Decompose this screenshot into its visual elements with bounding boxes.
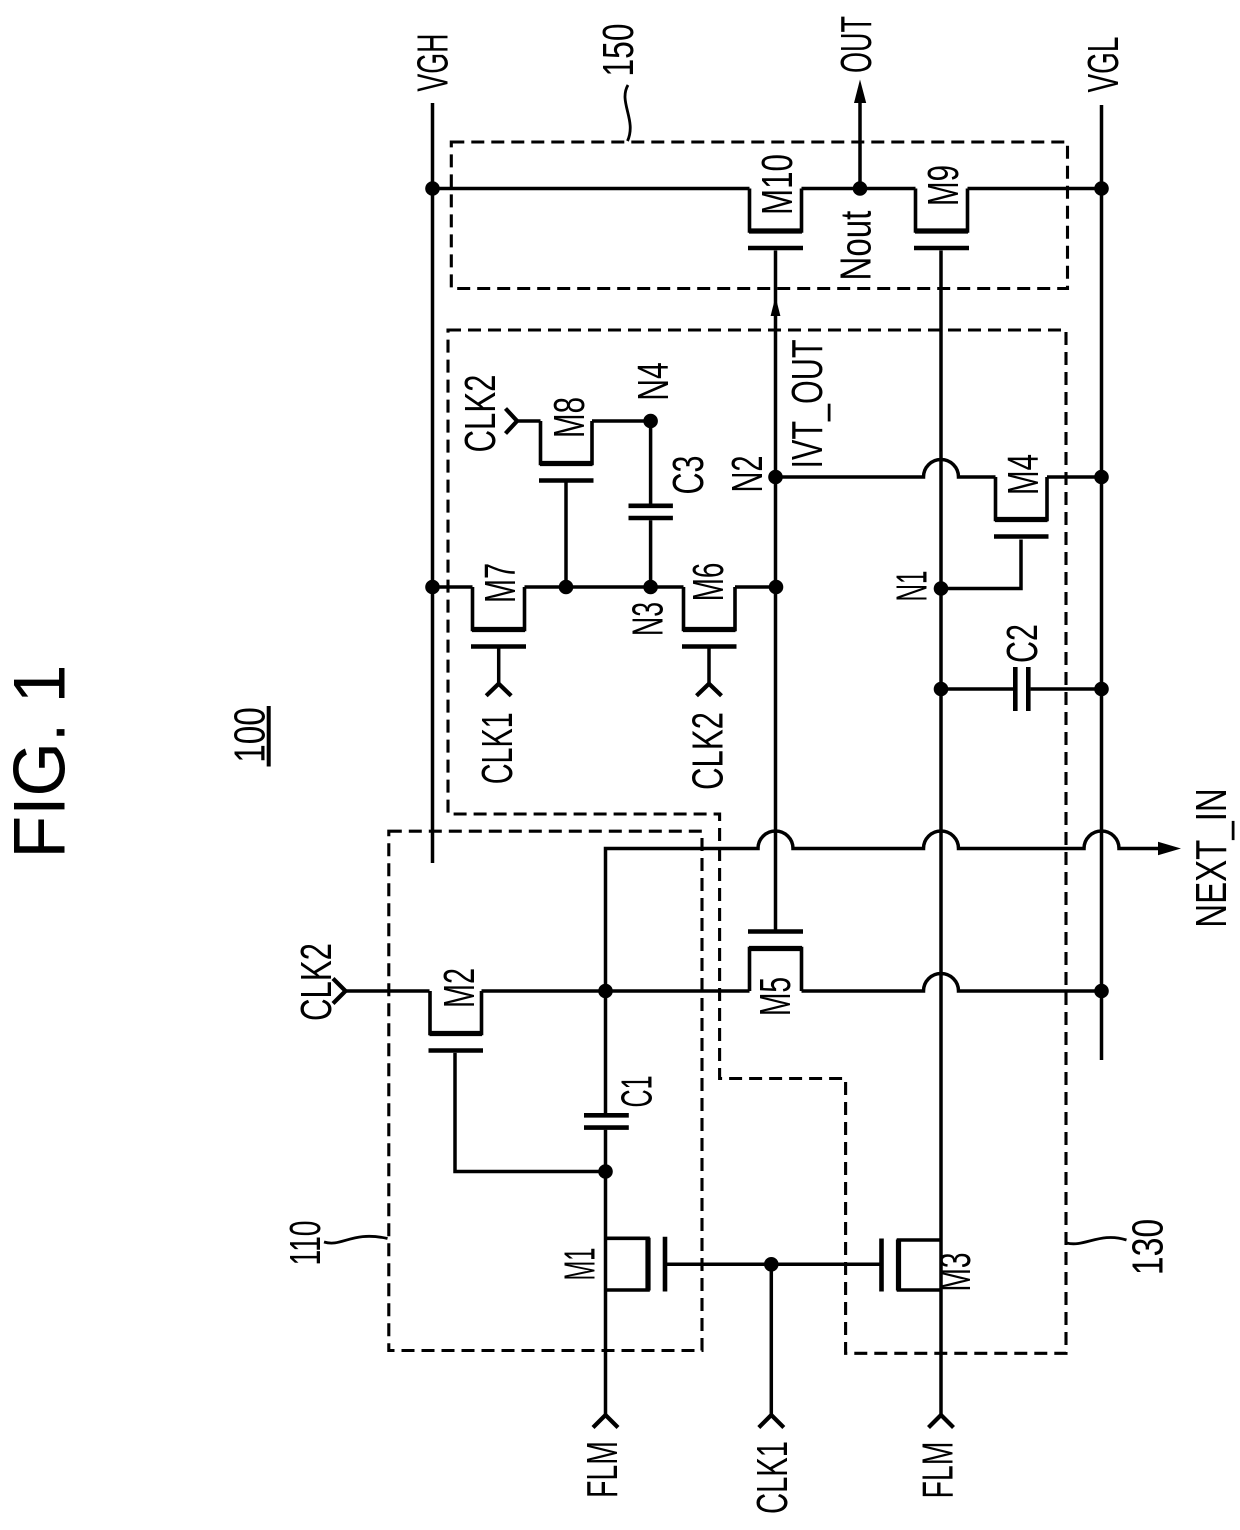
svg-text:M7: M7 bbox=[476, 563, 525, 603]
svg-text:CLK2: CLK2 bbox=[456, 375, 505, 453]
transistor M7 bbox=[473, 587, 525, 630]
svg-text:M2: M2 bbox=[435, 968, 484, 1008]
wire M8 gate lead bbox=[564, 481, 568, 588]
capacitor C1 bbox=[604, 991, 608, 1415]
svg-text:OUT: OUT bbox=[832, 16, 881, 73]
wire IVT_OUT (M10 gate to M5 gate) bbox=[774, 251, 778, 932]
arrowhead IVT_OUT (pointing up) bbox=[771, 297, 781, 317]
capacitor C3 bbox=[649, 421, 653, 587]
transistor M2 bbox=[430, 991, 482, 1034]
junction bottom row x VGL bbox=[1094, 984, 1109, 999]
svg-text:VGH: VGH bbox=[409, 34, 458, 92]
wire N2 row with hop bbox=[776, 460, 1102, 478]
wire M4 gate lead bbox=[948, 540, 1021, 589]
terminal CLK1 at M7 gate bbox=[497, 648, 501, 684]
junction C2 row x N1 line bbox=[934, 682, 949, 697]
terminal CLK2 at M2 source bbox=[333, 979, 346, 1004]
junction VGH x output row bbox=[425, 181, 440, 196]
svg-text:M4: M4 bbox=[999, 454, 1048, 495]
wire C2 row bbox=[941, 687, 1102, 691]
svg-text:C1: C1 bbox=[613, 1076, 662, 1108]
wire OUT lead bbox=[858, 103, 862, 189]
svg-text:FLM: FLM bbox=[914, 1442, 963, 1499]
wire output row bbox=[433, 187, 1102, 191]
dashed box 150 (output buffer) bbox=[451, 142, 1067, 289]
svg-text:M9: M9 bbox=[919, 165, 968, 206]
capacitor C2 bbox=[1013, 667, 1018, 711]
transistor M3 bbox=[899, 1240, 942, 1290]
svg-text:N1: N1 bbox=[888, 571, 937, 602]
junction output row x VGL bbox=[1094, 181, 1109, 196]
wire VGH rail bbox=[431, 103, 435, 863]
svg-text:M3: M3 bbox=[931, 1253, 980, 1292]
svg-text:Nout: Nout bbox=[832, 211, 881, 281]
terminal CLK2 at M6 gate bbox=[707, 648, 711, 684]
junction C3 x N3 row bbox=[643, 580, 658, 595]
leader squiggle 130 bbox=[1067, 1237, 1127, 1243]
wire M8 row bbox=[517, 419, 651, 423]
svg-text:M1: M1 bbox=[556, 1248, 605, 1281]
transistor M9 bbox=[916, 189, 968, 232]
wire N3 row bbox=[433, 585, 776, 589]
svg-text:FIG. 1: FIG. 1 bbox=[0, 665, 81, 859]
junction bottom row x C1/NEXT_IN bbox=[598, 984, 613, 999]
junction M2 gate x C1 line bbox=[598, 1164, 613, 1179]
wire M2 gate lead bbox=[455, 1053, 606, 1172]
transistor M5 bbox=[750, 949, 802, 992]
svg-text:M5: M5 bbox=[751, 977, 800, 1016]
wire M9-gate/N1/M3 vertical bbox=[939, 251, 943, 1416]
svg-text:110: 110 bbox=[281, 1221, 330, 1266]
junction N3 row x IVT_OUT line bbox=[769, 580, 784, 595]
svg-text:M8: M8 bbox=[545, 397, 594, 438]
transistor M6 bbox=[684, 587, 736, 630]
terminal FLM at M1 source bbox=[593, 1415, 618, 1428]
svg-text:150: 150 bbox=[594, 24, 643, 77]
node Nout junction bbox=[853, 181, 868, 196]
svg-text:N3: N3 bbox=[624, 602, 673, 636]
svg-text:VGL: VGL bbox=[1079, 37, 1128, 93]
junction C2 row x VGL bbox=[1094, 682, 1109, 697]
junction gate row x CLK1 bbox=[764, 1257, 779, 1272]
leader squiggle 150 bbox=[625, 85, 630, 141]
dashed stair box (logic block 130 outline) bbox=[448, 330, 1066, 1353]
transistor M10 bbox=[750, 189, 802, 232]
terminal FLM at M3 source bbox=[929, 1415, 954, 1428]
svg-text:NEXT_IN: NEXT_IN bbox=[1187, 788, 1236, 928]
transistor M1 bbox=[606, 1238, 649, 1290]
svg-text:130: 130 bbox=[1124, 1219, 1173, 1276]
junction M8 gate x N3 row bbox=[559, 580, 574, 595]
wire M1-M3 gate row bbox=[665, 1263, 881, 1267]
terminal CLK2 at M8 source bbox=[506, 409, 518, 434]
svg-text:CLK1: CLK1 bbox=[473, 712, 522, 784]
svg-text:C3: C3 bbox=[664, 456, 713, 495]
transistor M4 bbox=[996, 477, 1048, 520]
wire bottom row bbox=[346, 974, 1102, 992]
svg-text:CLK1: CLK1 bbox=[748, 1441, 797, 1514]
svg-text:M10: M10 bbox=[753, 154, 802, 215]
wire VGL rail bbox=[1100, 105, 1104, 1060]
svg-text:M6: M6 bbox=[684, 563, 733, 602]
arrowhead OUT bbox=[854, 80, 866, 104]
svg-text:N4: N4 bbox=[629, 362, 678, 401]
junction VGH x N3 row bbox=[425, 580, 440, 595]
wire NEXT_IN with hops bbox=[606, 831, 1159, 991]
arrowhead NEXT_IN bbox=[1158, 842, 1181, 855]
wire CLK1 lead bbox=[770, 1264, 774, 1415]
node N1 junction bbox=[934, 581, 949, 596]
svg-text:CLK2: CLK2 bbox=[684, 712, 733, 790]
leader squiggle 110 bbox=[324, 1236, 388, 1243]
transistor M8 bbox=[541, 421, 593, 464]
svg-text:N2: N2 bbox=[723, 456, 772, 493]
node N4 junction bbox=[643, 414, 658, 429]
svg-text:C2: C2 bbox=[998, 624, 1047, 663]
svg-text:IVT_OUT: IVT_OUT bbox=[783, 340, 832, 469]
dashed box 110 (input stage) bbox=[389, 831, 702, 1350]
node N2 junction bbox=[768, 470, 783, 485]
svg-text:FLM: FLM bbox=[578, 1441, 627, 1498]
svg-text:CLK2: CLK2 bbox=[292, 943, 341, 1021]
terminal CLK1 arrow bbox=[759, 1415, 784, 1428]
junction N2 row x VGL bbox=[1094, 470, 1109, 485]
